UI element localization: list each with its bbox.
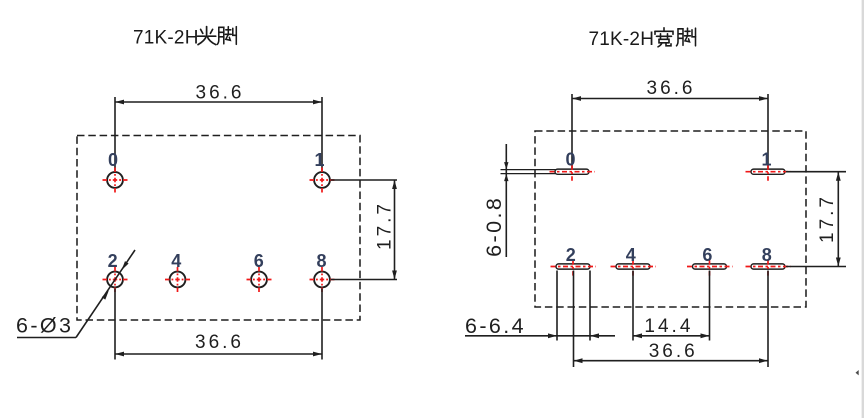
- pin pitch dimension 14.4: extension line from pin 4: [632, 271, 634, 341]
- right bottom dimension 36.6: extension line from pin 8 center: [767, 271, 769, 368]
- right top dimension 36.6: extension line from pin 0: [571, 94, 573, 169]
- svg-text:6-6.4: 6-6.4: [465, 314, 526, 338]
- pin 4 (right diagram): wide flat pin with red centerlines: [611, 260, 657, 276]
- left top dimension 36.6: extension line from pin 1: [321, 97, 323, 171]
- pin 2 (right diagram): wide flat pin with red centerlines: [551, 260, 597, 276]
- right top dimension 36.6: dimension line with arrows: [572, 96, 768, 101]
- pin pitch dimension 14.4: dimension line with arrows: [633, 333, 710, 338]
- svg-text:6: 6: [254, 251, 264, 271]
- svg-text:36.6: 36.6: [647, 78, 696, 99]
- svg-text:0: 0: [565, 149, 575, 169]
- pin 8 (right diagram): wide flat pin with red centerlines: [746, 260, 792, 276]
- svg-text:1: 1: [761, 149, 771, 169]
- svg-text:36.6: 36.6: [649, 341, 698, 362]
- pin width dimension 6-6.4: dimension line with outside arrows: [465, 333, 615, 338]
- svg-text:8: 8: [316, 251, 326, 271]
- hole size callout: lower arrowhead pointing at pin 2 edge: [102, 291, 109, 300]
- page scrollbar track at right edge: [862, 0, 864, 418]
- left 17.7 dimension: extension line from pin 8: [331, 279, 398, 281]
- pin 6 (right diagram): wide flat pin with red centerlines: [687, 260, 733, 276]
- svg-text:2: 2: [108, 251, 118, 271]
- left bottom dimension 36.6: dimension line with arrows: [115, 352, 322, 357]
- svg-text:6: 6: [702, 245, 712, 265]
- left bottom dimension 36.6: extension line from pin 8: [321, 289, 323, 360]
- hole size callout: upper arrowhead pointing at pin 2 edge: [122, 261, 129, 270]
- pin width dimension 6-6.4: extension line pin 2 left edge: [556, 271, 558, 341]
- left 17.7 dimension: vertical dimension line with arrows: [392, 180, 397, 280]
- svg-text:4: 4: [171, 251, 181, 271]
- left top dimension 36.6: extension line from pin 0: [114, 97, 116, 171]
- hole size callout 6-Ø3: underline leader segment: [17, 337, 76, 339]
- pin 8 (left diagram): round hole with red centerlines: [310, 267, 335, 292]
- pin thickness dimension 6-0.8: lower extension line (pin 0 bottom edge): [501, 173, 557, 175]
- right 17.7 dimension: vertical dimension line with arrows: [836, 172, 841, 267]
- title: left diagram "71K-2H (pointed pin)": [133, 27, 236, 49]
- right diagram relay body outline (dashed rectangle): [535, 131, 806, 307]
- pin thickness dimension 6-0.8: vertical dimension line with outside arrows: [504, 144, 508, 257]
- svg-text:6-0.8: 6-0.8: [482, 196, 506, 257]
- svg-text:36.6: 36.6: [195, 332, 244, 353]
- svg-text:8: 8: [762, 245, 772, 265]
- pin width dimension 6-6.4: extension line pin 2 right edge: [589, 271, 591, 341]
- svg-text:0: 0: [108, 150, 118, 170]
- left bottom dimension 36.6: extension line from pin 2: [114, 289, 116, 360]
- svg-text:14.4: 14.4: [644, 316, 693, 337]
- svg-text:2: 2: [566, 245, 576, 265]
- right 17.7 dimension: extension line from pin 8: [786, 266, 846, 268]
- pin 6 (left diagram): round hole with red centerlines: [247, 267, 272, 292]
- right bottom dimension 36.6: extension line from pin 2 center: [573, 271, 575, 368]
- svg-text:17.7: 17.7: [375, 201, 396, 250]
- title: right diagram "71K-2H (wide pin)": [589, 28, 696, 50]
- pin 1 (left diagram): round hole with red centerlines: [310, 168, 335, 193]
- left 17.7 dimension: extension line from pin 1: [331, 179, 398, 181]
- pin thickness dimension 6-0.8: upper extension line (pin 0 top edge): [501, 169, 557, 171]
- pin 1 (right diagram): wide flat pin with red centerlines: [746, 165, 792, 181]
- pin 0 (left diagram): round hole with red centerlines: [103, 168, 128, 193]
- small media arrow glyph near bottom right: [856, 370, 859, 375]
- svg-text:6-Ø3: 6-Ø3: [16, 314, 73, 338]
- svg-text:4: 4: [626, 245, 636, 265]
- right 17.7 dimension: extension line from pin 1: [786, 171, 846, 173]
- right bottom dimension 36.6: dimension line with arrows: [574, 358, 769, 363]
- pin 0 (right diagram): wide flat pin with red centerlines: [550, 165, 596, 181]
- svg-text:71K-2H: 71K-2H: [589, 29, 655, 50]
- pin 4 (left diagram): round hole with red centerlines: [165, 267, 190, 292]
- left diagram relay body outline (dashed rectangle): [77, 136, 360, 321]
- pin 2 (left diagram): round hole with red centerlines: [103, 267, 128, 292]
- svg-text:17.7: 17.7: [817, 194, 838, 243]
- pin pitch dimension 14.4: extension line from pin 6: [709, 271, 711, 341]
- right top dimension 36.6: extension line from pin 1: [767, 94, 769, 169]
- svg-text:71K-2H: 71K-2H: [133, 28, 199, 49]
- left top dimension 36.6: dimension line with arrows: [115, 100, 322, 105]
- svg-text:1: 1: [314, 150, 324, 170]
- svg-text:36.6: 36.6: [196, 83, 245, 104]
- hole size callout 6-Ø3: diagonal leader line through pin 2: [76, 250, 135, 338]
